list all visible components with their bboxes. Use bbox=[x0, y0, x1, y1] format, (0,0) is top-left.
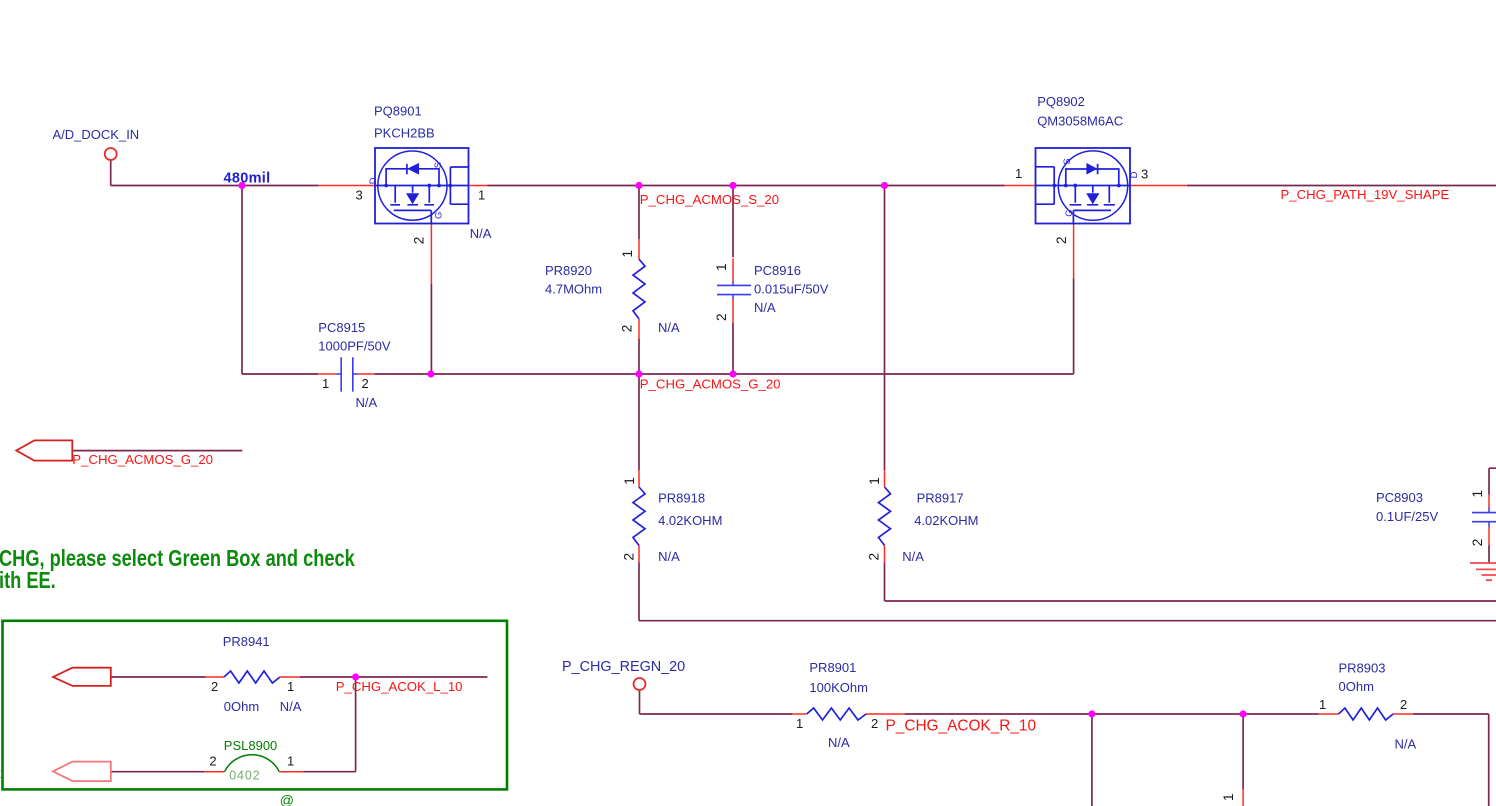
svg-text:PR8901: PR8901 bbox=[809, 660, 856, 675]
svg-text:PQ8901: PQ8901 bbox=[374, 104, 422, 119]
svg-text:P_CHG_PATH_19V_SHAPE: P_CHG_PATH_19V_SHAPE bbox=[1281, 187, 1450, 202]
svg-text:1: 1 bbox=[714, 263, 729, 271]
svg-text:G: G bbox=[434, 212, 445, 219]
svg-text:D: D bbox=[368, 177, 379, 184]
svg-text:480mil: 480mil bbox=[224, 171, 271, 187]
svg-text:1: 1 bbox=[1470, 490, 1485, 498]
svg-text:x: x bbox=[0, 765, 1, 781]
svg-text:N/A: N/A bbox=[754, 300, 776, 315]
svg-text:1: 1 bbox=[867, 477, 882, 485]
svg-text:1: 1 bbox=[322, 376, 329, 391]
svg-text:2: 2 bbox=[714, 313, 729, 321]
svg-text:2: 2 bbox=[1400, 697, 1407, 712]
svg-text:0.015uF/50V: 0.015uF/50V bbox=[754, 282, 829, 297]
svg-text:2: 2 bbox=[620, 325, 635, 333]
svg-text:P_CHG_REGN_20: P_CHG_REGN_20 bbox=[562, 659, 685, 675]
svg-text:0402: 0402 bbox=[229, 769, 260, 783]
svg-text:2: 2 bbox=[871, 716, 878, 731]
svg-text:G: G bbox=[1064, 209, 1075, 216]
svg-text:2: 2 bbox=[867, 553, 882, 561]
svg-text:1: 1 bbox=[620, 250, 635, 258]
svg-text:P_CHG_ACMOS_S_20: P_CHG_ACMOS_S_20 bbox=[640, 192, 779, 207]
svg-text:P_CHG_ACMOS_G_20: P_CHG_ACMOS_G_20 bbox=[640, 377, 781, 392]
svg-text:N/A: N/A bbox=[828, 735, 850, 750]
svg-text:N/A: N/A bbox=[658, 320, 680, 335]
svg-text:PKCH2BB: PKCH2BB bbox=[374, 126, 435, 141]
svg-text:0Ohm: 0Ohm bbox=[224, 699, 259, 714]
svg-text:N/A: N/A bbox=[470, 226, 492, 241]
svg-text:2: 2 bbox=[411, 237, 426, 245]
svg-text:PR8917: PR8917 bbox=[917, 490, 964, 505]
svg-text:2: 2 bbox=[211, 679, 218, 694]
svg-text:1: 1 bbox=[287, 679, 294, 694]
svg-text:2: 2 bbox=[209, 753, 216, 768]
svg-text:P_CHG_ACOK_L_10: P_CHG_ACOK_L_10 bbox=[336, 679, 463, 694]
svg-text:S: S bbox=[1062, 158, 1073, 164]
svg-text:2: 2 bbox=[1054, 236, 1069, 244]
svg-text:PQ8902: PQ8902 bbox=[1037, 94, 1085, 109]
svg-text:N/A: N/A bbox=[902, 549, 924, 564]
svg-text:4.02KOHM: 4.02KOHM bbox=[914, 513, 978, 528]
svg-text:N/A: N/A bbox=[280, 699, 302, 714]
svg-text:3: 3 bbox=[1141, 167, 1148, 182]
svg-text:1: 1 bbox=[1221, 793, 1236, 801]
svg-text:N/A: N/A bbox=[1395, 736, 1417, 751]
svg-text:PR8941: PR8941 bbox=[223, 634, 270, 649]
svg-text:PR8918: PR8918 bbox=[658, 490, 705, 505]
svg-text:2: 2 bbox=[1470, 539, 1485, 547]
svg-text:1000PF/50V: 1000PF/50V bbox=[318, 339, 391, 354]
svg-text:N/A: N/A bbox=[658, 549, 680, 564]
svg-text:D: D bbox=[1129, 171, 1140, 178]
svg-text:PSL8900: PSL8900 bbox=[224, 738, 277, 753]
svg-text:100KOhm: 100KOhm bbox=[809, 680, 868, 695]
svg-text:S: S bbox=[433, 162, 444, 168]
svg-text:PR8920: PR8920 bbox=[545, 263, 592, 278]
svg-text:4.7MOhm: 4.7MOhm bbox=[545, 282, 602, 297]
svg-text:@: @ bbox=[280, 792, 294, 806]
svg-text:0Ohm: 0Ohm bbox=[1339, 679, 1374, 694]
svg-text:QM3058M6AC: QM3058M6AC bbox=[1037, 114, 1123, 129]
svg-text:ith EE.: ith EE. bbox=[0, 568, 56, 594]
svg-text:PR8903: PR8903 bbox=[1339, 661, 1386, 676]
svg-text:P_CHG_ACMOS_G_20: P_CHG_ACMOS_G_20 bbox=[72, 452, 213, 467]
svg-text:2: 2 bbox=[362, 376, 369, 391]
svg-text:1: 1 bbox=[796, 716, 803, 731]
svg-text:0.1UF/25V: 0.1UF/25V bbox=[1376, 509, 1438, 524]
svg-text:1: 1 bbox=[478, 188, 485, 203]
svg-text:PC8903: PC8903 bbox=[1376, 490, 1423, 505]
svg-text:A/D_DOCK_IN: A/D_DOCK_IN bbox=[53, 127, 140, 142]
svg-text:PC8916: PC8916 bbox=[754, 263, 801, 278]
svg-text:1: 1 bbox=[1015, 166, 1022, 181]
svg-text:PC8915: PC8915 bbox=[318, 320, 365, 335]
svg-text:P_CHG_ACOK_R_10: P_CHG_ACOK_R_10 bbox=[886, 718, 1037, 735]
svg-text:1: 1 bbox=[1319, 697, 1326, 712]
svg-text:1: 1 bbox=[287, 753, 294, 768]
svg-text:2: 2 bbox=[622, 553, 637, 561]
svg-text:N/A: N/A bbox=[356, 395, 378, 410]
svg-text:4.02KOHM: 4.02KOHM bbox=[658, 513, 722, 528]
svg-text:1: 1 bbox=[622, 477, 637, 485]
svg-text:3: 3 bbox=[356, 188, 363, 203]
